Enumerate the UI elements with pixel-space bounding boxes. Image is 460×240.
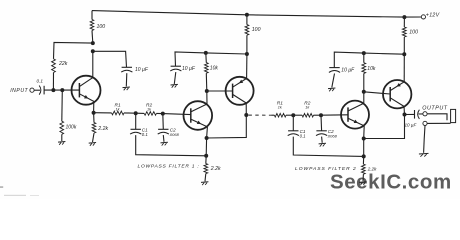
wire Q2 collector	[206, 91, 208, 104]
node 10k top f1	[204, 51, 208, 55]
svg-text:10k: 10k	[210, 66, 219, 72]
capacitor C1 filter2 0.1	[288, 130, 298, 132]
ground output	[419, 152, 429, 155]
wire 10k to Q2 collector	[205, 73, 208, 91]
svg-text:10k: 10k	[367, 66, 376, 72]
wire node B to C3	[93, 51, 127, 67]
wire input to C4	[34, 89, 40, 91]
svg-text:0.1: 0.1	[142, 132, 149, 137]
resistor 100k	[60, 121, 64, 134]
resistor 2.2k Q1 emitter	[92, 123, 96, 134]
wire R3 bottom to node A	[91, 31, 94, 44]
wire node to R2	[136, 112, 145, 114]
wire Q5 collector	[403, 106, 406, 114]
wire stage2 decoupled rail	[334, 52, 404, 68]
wire Q2 emitter to Q3 collector	[207, 115, 247, 138]
svg-text:0.1: 0.1	[300, 134, 307, 139]
node Q3 emitter / 100 ohm mid	[245, 52, 249, 56]
svg-text:0.1: 0.1	[37, 79, 44, 84]
wire 10k f2 to Q4 collector	[363, 74, 365, 92]
svg-text:10 µF: 10 µF	[405, 123, 418, 128]
resistor R2 filter1	[144, 112, 156, 116]
node 10k top f2	[362, 51, 366, 55]
terminal +12V	[421, 15, 425, 19]
node mid 100 top	[245, 13, 249, 17]
wire Q3 emitter to rail	[246, 54, 248, 78]
wire Q4 collector	[363, 92, 365, 103]
resistor 100 mid	[245, 25, 249, 36]
wire Q1 collector	[92, 51, 94, 77]
wire Q4 collector to Q5 base	[364, 92, 390, 94]
svg-text:22k: 22k	[58, 61, 68, 67]
wire C4 to Q1 base	[44, 89, 79, 91]
terminal input	[30, 88, 34, 92]
wire 2.2k to ground	[93, 133, 95, 142]
wire to 2.2k f2	[362, 156, 364, 164]
capacitor C1 filter1 0.1	[131, 128, 141, 130]
wire C2 to ground	[162, 135, 165, 142]
wire R1 to node C1	[124, 112, 136, 114]
node Q3 collector / filter2 feed	[244, 113, 248, 117]
transistor Q2	[184, 101, 213, 130]
wire Q4 emitter down	[363, 139, 365, 157]
node Q2 emitter	[205, 136, 209, 140]
node B collector bypass tap	[91, 49, 95, 53]
svg-text:2.2k: 2.2k	[97, 126, 108, 132]
resistor 22k	[52, 59, 56, 73]
capacitor C6 10uF stage2 rail	[329, 67, 339, 69]
wire Q3 collector	[245, 103, 247, 115]
ground C2 f1	[161, 141, 168, 144]
ground 2.2k f2	[359, 181, 366, 184]
node 100k junction	[60, 88, 64, 92]
wire Q1 emitter	[93, 101, 95, 112]
svg-text:100: 100	[97, 24, 106, 30]
wire C1 f2 bootstrap	[293, 137, 363, 157]
node bootstrap f2	[362, 154, 366, 158]
wire +12V supply rail	[92, 11, 421, 18]
transistor Q4	[341, 101, 369, 129]
wire C1 bootstrap to emitter node	[136, 135, 207, 156]
svg-text:.0068: .0068	[169, 132, 180, 137]
wire filter2 to Q4 base	[321, 114, 348, 116]
svg-text:10 µF: 10 µF	[135, 67, 149, 73]
wire node to R2 f2	[293, 114, 302, 116]
wire to R1 f2	[272, 114, 275, 116]
ground C5	[171, 83, 178, 86]
node Q4 collector / Q5 base	[362, 90, 366, 94]
resistor R1 filter1	[112, 111, 124, 115]
jack J1 phone plug	[451, 109, 456, 122]
node Q2 collector / Q3 base	[205, 89, 209, 93]
terminal output tip	[423, 112, 427, 116]
ground 2.2k	[89, 142, 96, 145]
wire R2 to node C2	[156, 112, 162, 114]
resistor 2.2k filter1 load	[204, 164, 208, 174]
wire to C2 f2	[320, 115, 323, 131]
resistor 10k filter1	[205, 63, 209, 74]
wire Q4 emitter	[363, 126, 366, 139]
svg-text:+12V: +12V	[426, 13, 440, 19]
transistor Q1	[72, 76, 101, 105]
svg-text:10 µF: 10 µF	[341, 67, 355, 73]
svg-text:INPUT: INPUT	[10, 88, 28, 94]
wire to 2.2k	[93, 113, 95, 123]
ground C2 f2	[319, 142, 326, 145]
transistor Q5 pnp	[383, 80, 411, 108]
wire to C1 f2	[292, 115, 294, 131]
capacitor C4 0.1 input coupling	[43, 86, 45, 95]
svg-text:LOWPASS FILTER 1 :: LOWPASS FILTER 1 :	[138, 164, 200, 170]
wire C3 to ground	[125, 73, 128, 86]
node C2 filter2	[319, 113, 323, 117]
wire right 100 to local rail	[403, 37, 405, 54]
node C1 filter2	[291, 113, 295, 117]
ground C3	[123, 86, 130, 89]
wire to C1 f1	[135, 113, 137, 129]
wire to 2.2k f1	[205, 156, 207, 164]
ground C6	[328, 87, 335, 90]
wire node A to R1 22k	[54, 42, 93, 59]
wire C7 to output terminal	[419, 113, 423, 115]
svg-text:SeekIC.com: SeekIC.com	[330, 171, 452, 194]
svg-text:OUTPUT: OUTPUT	[422, 105, 447, 111]
node input bias junction	[51, 88, 55, 92]
wire 100k to ground	[61, 134, 63, 141]
resistor R3 100	[90, 20, 94, 31]
wire sleeve to jack	[427, 122, 451, 124]
ground 100k	[58, 141, 65, 144]
wire filter1 in	[94, 112, 112, 114]
wire Q2 emitter	[206, 127, 209, 138]
svg-text:100: 100	[252, 27, 261, 33]
wire C6 to ground	[332, 74, 335, 88]
ground 2.2k f1	[201, 181, 208, 184]
node A Q1 collector bias node	[91, 41, 95, 45]
capacitor C5 10uF stage1 rail	[171, 65, 181, 67]
wire C2 f2 to ground	[321, 137, 324, 143]
transistor Q3 pnp	[226, 77, 254, 105]
capacitor C7 10uF output	[414, 110, 416, 119]
wire mid 100 to local rail	[246, 35, 248, 54]
wire rail to 10k f1	[205, 53, 208, 63]
wire 2.2k f2 to ground	[362, 174, 364, 181]
wire rail to right 100	[403, 17, 405, 27]
decorative scan marks	[0, 187, 3, 188]
node Q1 emitter / filter1 input	[92, 111, 96, 115]
node bootstrap f1	[204, 154, 208, 158]
node right 100 top	[402, 15, 406, 19]
wire Q4 emitter to Q5 collector	[364, 115, 405, 139]
wire rail to R3 top	[91, 11, 93, 20]
svg-text:10 µF: 10 µF	[182, 66, 196, 72]
capacitor C2 filter2 .0068	[316, 130, 326, 132]
wire rail to 10k f2	[363, 53, 365, 63]
resistor R2 filter2	[302, 113, 313, 117]
capacitor C3 10uF	[122, 66, 132, 68]
resistor R1 filter2	[274, 113, 286, 117]
wire Q5 emitter to rail	[403, 54, 405, 82]
svg-text:100k: 100k	[66, 125, 77, 131]
wire rail to mid 100	[246, 15, 248, 25]
node C1 filter1	[134, 111, 138, 115]
svg-text:100: 100	[409, 30, 418, 36]
wire R2 to node C2 f2	[314, 114, 322, 116]
svg-text:.0068: .0068	[327, 134, 338, 139]
wire C5 to ground	[174, 72, 176, 84]
wire to C2 f1	[162, 114, 165, 130]
terminal output sleeve	[423, 121, 427, 125]
wire stage1 decoupled rail	[175, 52, 247, 66]
node C2 filter1	[161, 112, 165, 116]
wire 2.2k f1 to ground	[204, 174, 207, 182]
node output	[403, 113, 407, 117]
resistor 100 right	[402, 27, 406, 37]
wire tip to jack	[427, 114, 447, 121]
svg-text:LOWPASS FILTER 2: LOWPASS FILTER 2	[295, 166, 357, 172]
wire filter1 to Q2 base	[163, 114, 191, 115]
wire R1 to node C1 f2	[286, 114, 293, 116]
wire emitter node down	[205, 138, 207, 156]
capacitor C2 filter1 .0068	[158, 128, 168, 130]
wire 22k to base node	[52, 73, 54, 91]
wire output node to C7	[405, 113, 415, 115]
svg-text:2.2k: 2.2k	[367, 167, 377, 172]
node Q5 emitter / 100 ohm right	[402, 52, 406, 56]
wire sleeve to ground	[424, 126, 425, 153]
svg-text:2.2k: 2.2k	[210, 166, 221, 172]
wire Q2 collector to Q3 base	[207, 90, 233, 92]
resistor 2.2k filter2 load	[362, 164, 366, 174]
wire node to 100k	[61, 90, 64, 121]
node Q4 emitter	[362, 137, 366, 141]
resistor 10k filter2	[362, 63, 366, 74]
wire dashed continuation	[249, 114, 272, 116]
